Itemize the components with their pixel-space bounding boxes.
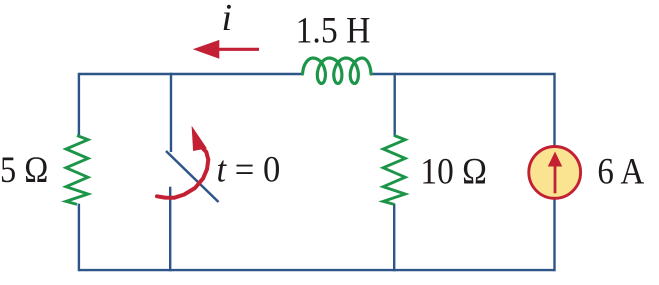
wire: left branch lower stub [78, 204, 80, 272]
inductor L1 1.5 H coil [303, 58, 372, 84]
resistor R1 5 ohm [66, 136, 88, 205]
svg-text:6 A: 6 A [597, 150, 644, 191]
wire: bottom rail [79, 269, 555, 271]
wire: top rail left of inductor [171, 73, 303, 75]
current source arrow head [548, 152, 562, 167]
resistor R2 10 ohm [383, 136, 405, 205]
svg-text:5 Ω: 5 Ω [0, 149, 48, 190]
wire: source branch upper stub [553, 73, 555, 147]
svg-text:1.5 H: 1.5 H [296, 9, 371, 50]
wire: 10 ohm branch lower stub [393, 204, 395, 272]
wire: top-left corner segment [79, 73, 171, 75]
wire: source branch lower stub [553, 198, 555, 271]
current source arrow shaft [554, 164, 557, 193]
wire: switch branch upper stub [170, 73, 172, 152]
switch S1 blade (open) [166, 151, 219, 202]
wire: left branch upper stub [78, 73, 80, 137]
switch actuation arrow head [192, 126, 207, 151]
svg-text:10 Ω: 10 Ω [420, 150, 487, 191]
current arrow i head [193, 40, 220, 59]
current source I1 circle [529, 147, 581, 199]
svg-text:t = 0: t = 0 [217, 148, 281, 189]
wire: switch branch lower stub [169, 187, 171, 271]
wire: top rail right of inductor [371, 73, 555, 75]
wire: 10 ohm branch upper stub [394, 73, 396, 137]
current arrow i shaft [217, 48, 259, 51]
svg-text:i: i [222, 0, 233, 39]
switch actuation arrow arc [157, 148, 208, 198]
